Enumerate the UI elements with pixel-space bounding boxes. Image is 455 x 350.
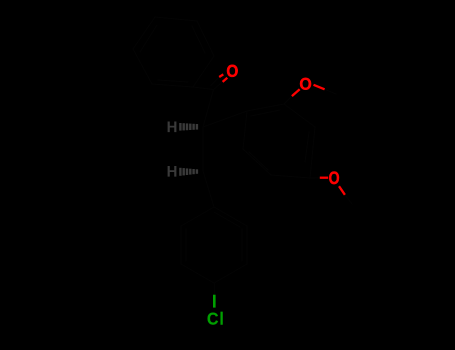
hashed wedge to H2 bbox=[180, 168, 197, 176]
chlorine Cl label bbox=[208, 313, 218, 325]
wire phenyl to carbonyl C bbox=[193, 87, 214, 90]
chlorophenyl ring bbox=[181, 207, 247, 283]
hashed wedge to H1 bbox=[180, 123, 197, 131]
hydrogen H2 label bbox=[168, 166, 177, 177]
O2 methyl bond black half bbox=[325, 89, 336, 94]
C=O bond black halves bbox=[211, 77, 223, 90]
methoxy O2 red half-bonds bbox=[292, 85, 325, 96]
oxygen O2 (upper methoxy) bbox=[300, 78, 311, 90]
dimethoxyphenyl ring bbox=[243, 104, 315, 178]
methoxy O3 red half-bonds bbox=[320, 178, 345, 195]
phenyl ring (benzoyl) bbox=[133, 17, 214, 87]
oxygen O1 (ketone) bbox=[227, 65, 238, 77]
carbonyl double bond red halves bbox=[219, 74, 227, 82]
carbonyl C to C1 bbox=[203, 90, 214, 128]
oxygen O3 (right methoxy) bbox=[329, 171, 339, 184]
ring to O3 bond black half bbox=[310, 177, 320, 179]
C1 to C2 bbox=[202, 127, 204, 171]
C2 to chlorophenyl ring bbox=[203, 171, 214, 207]
hydrogen H1 label bbox=[168, 122, 177, 133]
ring to O2 bond black half bbox=[284, 96, 292, 104]
C1 to dimethoxyphenyl ring bbox=[203, 111, 247, 127]
C-Cl green half-bond bbox=[213, 295, 216, 308]
ring to Cl bond black half bbox=[213, 283, 215, 295]
O3 methyl bond black half bbox=[345, 195, 352, 204]
